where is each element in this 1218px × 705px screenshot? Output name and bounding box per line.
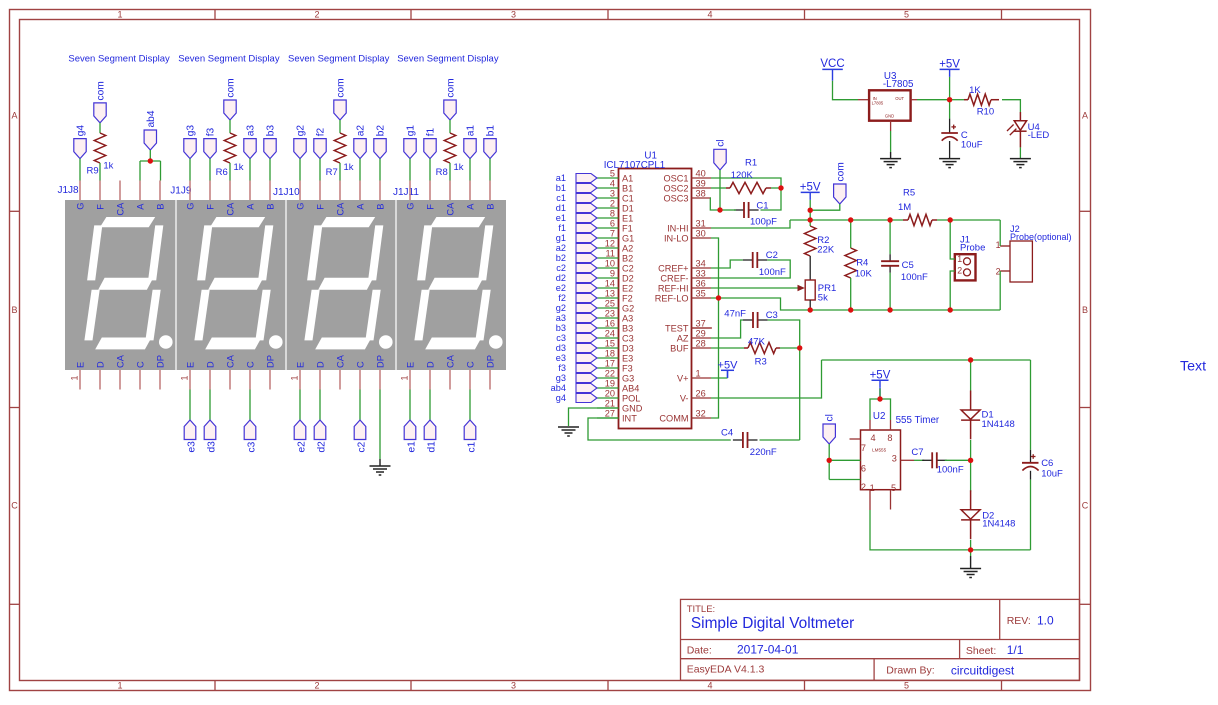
svg-text:Seven Segment Display: Seven Segment Display — [397, 54, 499, 65]
svg-text:E3: E3 — [622, 353, 633, 363]
power +5V (regulator) — [939, 59, 960, 77]
svg-text:c2: c2 — [357, 441, 368, 452]
svg-text:TITLE:: TITLE: — [687, 604, 716, 615]
svg-text:1k: 1k — [103, 161, 113, 172]
svg-text:R6: R6 — [216, 167, 228, 178]
capacitor C5 100nF — [881, 220, 928, 310]
svg-text:C: C — [11, 501, 18, 511]
svg-text:f1: f1 — [558, 223, 566, 233]
svg-text:VCC: VCC — [820, 58, 844, 70]
svg-text:d2: d2 — [556, 273, 566, 283]
net flag a2 — [354, 125, 367, 159]
U1 pin 28 BUF — [670, 338, 711, 353]
wire U1 GND to ground — [569, 408, 619, 426]
net flag f3 — [204, 127, 217, 158]
svg-text:F: F — [95, 204, 105, 210]
net flag c2 — [354, 420, 367, 453]
svg-text:100nF: 100nF — [937, 465, 964, 476]
wire +5V stem to rail — [809, 200, 811, 220]
svg-text:G1: G1 — [622, 233, 634, 243]
svg-text:CA: CA — [115, 202, 125, 216]
net flag a2 (U1 A2) — [556, 243, 597, 253]
svg-text:REF-LO: REF-LO — [655, 293, 689, 303]
wire com to R7 — [339, 120, 341, 133]
net flag c1 — [464, 420, 477, 453]
U1 pin 16 B3 — [597, 318, 633, 333]
wire right branch down to C6 — [1030, 360, 1032, 450]
svg-text:6: 6 — [861, 463, 866, 473]
svg-text:com: com — [226, 78, 237, 97]
net flag d2 (U1 D2) — [556, 273, 597, 283]
U1 pin 17 F3 — [597, 358, 633, 373]
net flag c3 — [244, 420, 257, 453]
wire b2 to pin B — [379, 159, 381, 181]
svg-text:1N4148: 1N4148 — [982, 519, 1015, 530]
svg-text:cl: cl — [716, 139, 727, 146]
wire LED to ground — [1019, 147, 1021, 158]
svg-text:INT: INT — [622, 413, 637, 423]
svg-text:R9: R9 — [87, 166, 99, 177]
svg-text:18: 18 — [605, 348, 615, 358]
svg-text:23: 23 — [605, 308, 615, 318]
wire R1 to OSC1 loop — [771, 187, 781, 189]
display module 2 top pins — [185, 181, 275, 216]
svg-text:4: 4 — [707, 10, 712, 20]
svg-text:a1: a1 — [466, 125, 477, 137]
svg-text:e3: e3 — [556, 353, 566, 363]
svg-text:a2: a2 — [556, 243, 566, 253]
connector J2 Probe(optional) — [996, 224, 1072, 282]
svg-text:1k: 1k — [454, 162, 464, 173]
svg-text:1: 1 — [70, 375, 80, 380]
svg-text:IN-HI: IN-HI — [667, 223, 688, 233]
svg-text:36: 36 — [696, 278, 706, 288]
ground (U3) — [880, 152, 901, 168]
U3 OUT pin — [911, 99, 917, 101]
svg-text:OSC3: OSC3 — [663, 193, 688, 203]
U1 pin 20 POL — [597, 388, 640, 403]
svg-text:a1: a1 — [556, 173, 566, 183]
wire pin to net flag d1 — [429, 390, 431, 421]
svg-text:BUF: BUF — [670, 343, 689, 353]
svg-text:d1: d1 — [427, 441, 438, 453]
capacitor C3 47nF — [724, 308, 778, 328]
svg-text:LM555: LM555 — [872, 447, 886, 452]
U1 pin 5 A1 — [597, 168, 633, 183]
svg-text:Drawn By:: Drawn By: — [886, 665, 934, 677]
svg-text:GND: GND — [622, 403, 643, 413]
svg-text:D3: D3 — [622, 343, 634, 353]
display module 1 bottom pins — [70, 354, 166, 389]
U1 pin 26 V- — [680, 388, 711, 403]
svg-text:32: 32 — [696, 408, 706, 418]
net flag a3 (U1 A3) — [556, 313, 597, 323]
power VCC — [820, 58, 844, 81]
svg-text:1: 1 — [696, 368, 701, 378]
wire V- to 555 rail — [711, 360, 822, 398]
svg-text:AB4: AB4 — [622, 383, 639, 393]
wire R2 to PR1 — [809, 256, 811, 280]
U1 pin 37 TEST stub — [692, 327, 713, 329]
net flag ab4 (U1 AB4) — [551, 383, 597, 393]
capacitor C4 220nF — [721, 428, 777, 458]
svg-text:Simple Digital Voltmeter: Simple Digital Voltmeter — [691, 615, 854, 632]
svg-text:e1: e1 — [407, 441, 418, 453]
diode D1 1N4148 — [961, 391, 1015, 440]
svg-text:OSC2: OSC2 — [663, 183, 688, 193]
resistor R3 47K — [744, 336, 780, 367]
net flag b3 — [264, 125, 277, 159]
svg-text:3: 3 — [892, 453, 897, 463]
svg-text:g4: g4 — [76, 125, 87, 137]
svg-text:c2: c2 — [556, 263, 566, 273]
svg-text:7: 7 — [610, 228, 615, 238]
svg-text:-L7805: -L7805 — [883, 79, 914, 90]
svg-text:d1: d1 — [556, 203, 566, 213]
svg-text:e2: e2 — [297, 441, 308, 453]
U1 pin 2 D1 — [597, 198, 634, 213]
svg-text:28: 28 — [696, 338, 706, 348]
svg-text:37: 37 — [696, 318, 706, 328]
wire R10 to LED — [1002, 100, 1020, 112]
svg-text:C5: C5 — [902, 260, 914, 271]
wire node down to C — [949, 100, 951, 119]
wire AZ to C3 — [711, 320, 743, 338]
net flag b2 — [374, 125, 387, 159]
wire IN-HI to +5V rail — [711, 220, 790, 228]
svg-text:a3: a3 — [246, 125, 257, 137]
display module 3 bottom pins — [290, 354, 386, 389]
svg-text:B: B — [265, 204, 275, 210]
wire f3 to pin F — [209, 159, 211, 181]
net flag a1 (U1 A1) — [556, 173, 597, 183]
svg-text:A3: A3 — [622, 313, 633, 323]
svg-text:R10: R10 — [977, 107, 994, 118]
svg-text:3: 3 — [610, 188, 615, 198]
svg-text:1N4148: 1N4148 — [982, 419, 1015, 430]
resistor R5 1M — [898, 187, 937, 225]
wire pin to net flag c3 — [249, 390, 251, 421]
U1 pin 25 G2 — [597, 298, 634, 313]
seven segment digit 1 — [84, 217, 172, 349]
U1 pin 19 AB4 — [597, 378, 639, 393]
wire 555 bottom rail — [870, 510, 1031, 550]
wire node to R10 — [950, 99, 964, 101]
svg-text:D: D — [95, 361, 105, 368]
ground (555) — [960, 550, 981, 578]
net flag com (module 4) — [444, 78, 457, 120]
net flag e3 (U1 E3) — [556, 353, 597, 363]
net flag f3 (U1 F3) — [558, 363, 597, 373]
svg-text:F: F — [425, 204, 435, 210]
wire V+ to +5V — [711, 377, 728, 379]
wire pin 3 to C7 — [914, 459, 924, 461]
wire BUF to R3 — [711, 347, 744, 349]
wire C3 right down to R3 node — [768, 320, 800, 440]
wire REF-HI to PR1 wiper — [711, 287, 798, 289]
op-amp/IC U1 ICL7107CPL1 — [604, 151, 692, 429]
svg-text:2: 2 — [957, 265, 962, 275]
U1 pin 38 OSC3 — [663, 188, 711, 203]
U1 pin 1 V+ — [677, 368, 711, 383]
net flag d1 — [424, 420, 437, 453]
wire R6 to pin CA — [229, 163, 231, 181]
svg-text:3: 3 — [511, 681, 516, 691]
U1 pin 29 AZ — [677, 328, 711, 343]
svg-text:4: 4 — [610, 178, 615, 188]
svg-text:AZ: AZ — [677, 333, 689, 343]
wire C7 to D1/D2 node — [945, 459, 971, 461]
title block — [681, 599, 1080, 680]
ground (U1 GND) — [558, 427, 579, 436]
wire C1 left — [720, 209, 736, 211]
svg-text:ab4: ab4 — [146, 110, 157, 127]
svg-text:35: 35 — [696, 288, 706, 298]
net flag e1 (U1 E1) — [556, 213, 597, 223]
svg-text:CA: CA — [115, 354, 125, 368]
wire +5V to pins 4,8 — [879, 388, 881, 399]
wire cl to OSC3/C1 node — [719, 170, 721, 210]
svg-text:5: 5 — [904, 10, 909, 20]
capacitor C6 10uF — [1022, 450, 1063, 550]
svg-text:47K: 47K — [748, 336, 766, 347]
capacitor C1 100pF — [734, 201, 777, 228]
svg-text:F1: F1 — [622, 223, 633, 233]
svg-text:c1: c1 — [556, 193, 566, 203]
net flag com (module 1) — [94, 81, 107, 123]
svg-text:L7805: L7805 — [872, 101, 884, 106]
wire b1 to pin B — [489, 159, 491, 181]
svg-text:d3: d3 — [207, 441, 218, 453]
U1 pin 22 G3 — [597, 368, 634, 383]
svg-text:com: com — [336, 78, 347, 97]
U1 pin 34 CREF+ — [658, 258, 711, 273]
svg-text:cl: cl — [825, 414, 836, 421]
svg-text:E: E — [185, 362, 195, 368]
net flag com (module 2) — [224, 78, 237, 120]
net flag d3 — [204, 420, 217, 453]
svg-text:220nF: 220nF — [750, 447, 777, 458]
wire R8 to pin CA — [449, 163, 451, 181]
net flag g1 (U1 G1) — [556, 233, 597, 243]
wire rail to D1 — [970, 360, 972, 391]
net flag g3 (U1 G3) — [556, 373, 597, 383]
wire pin to net flag c1 — [469, 390, 471, 421]
svg-text:REF-HI: REF-HI — [658, 283, 689, 293]
svg-text:E: E — [295, 362, 305, 368]
ground (display DP) — [370, 459, 391, 475]
svg-text:F2: F2 — [622, 293, 633, 303]
svg-text:V+: V+ — [677, 373, 689, 383]
power +5V (V+) — [718, 360, 739, 378]
svg-text:B1: B1 — [622, 183, 633, 193]
svg-text:5: 5 — [610, 168, 615, 178]
svg-text:1M: 1M — [898, 202, 911, 213]
seven segment digit 4 — [414, 217, 502, 349]
timer U2 555 — [861, 411, 940, 493]
U1 pin 9 D2 — [597, 268, 634, 283]
wire pin to net flag c2 — [359, 390, 361, 421]
wire VCC to U3 IN — [833, 81, 859, 100]
svg-text:CA: CA — [225, 354, 235, 368]
svg-text:Seven Segment Display: Seven Segment Display — [178, 54, 280, 65]
net flag e3 — [184, 420, 197, 453]
net flag g1 — [404, 125, 417, 159]
diode D2 1N4148 — [961, 490, 1015, 539]
wire +5V top rail — [790, 219, 903, 221]
svg-text:1: 1 — [957, 254, 962, 264]
svg-text:G: G — [405, 203, 415, 210]
wire bottom rail to J1 pin 2 — [950, 271, 955, 310]
svg-text:a3: a3 — [556, 313, 566, 323]
U1 pin 33 CREF- — [660, 268, 711, 283]
display module 4 top pins — [405, 181, 495, 216]
svg-text:d2: d2 — [317, 441, 328, 453]
net flag d2 — [314, 420, 327, 453]
svg-text:39: 39 — [696, 178, 706, 188]
resistor R1 120K — [726, 158, 771, 194]
net flag e2 (U1 E2) — [556, 283, 597, 293]
net flag f1 — [424, 127, 437, 158]
net flag d3 (U1 D3) — [556, 343, 597, 353]
svg-text:U2: U2 — [873, 411, 886, 422]
svg-text:D: D — [425, 361, 435, 368]
svg-text:CREF-: CREF- — [660, 273, 688, 283]
svg-text:120K: 120K — [731, 170, 754, 181]
U1 pin 36 REF-HI — [658, 278, 711, 293]
svg-text:G: G — [75, 203, 85, 210]
svg-text:20: 20 — [605, 388, 615, 398]
svg-text:A1: A1 — [622, 173, 633, 183]
wire pin to net flag e1 — [409, 390, 411, 421]
svg-text:C: C — [355, 361, 365, 368]
svg-text:2: 2 — [610, 198, 615, 208]
U1 pin 37 TEST — [665, 318, 711, 333]
svg-text:CA: CA — [225, 202, 235, 216]
svg-text:com: com — [835, 162, 846, 181]
U1 pin 13 F2 — [597, 288, 633, 303]
resistor R10 1K — [964, 85, 999, 118]
svg-text:g4: g4 — [556, 393, 566, 403]
net flag f1 (U1 F1) — [558, 223, 597, 233]
svg-text:6: 6 — [610, 218, 615, 228]
wire rail to J1 pin 1 — [950, 220, 955, 259]
svg-text:13: 13 — [605, 288, 615, 298]
svg-text:9: 9 — [610, 268, 615, 278]
wire g4 to pin G — [79, 159, 81, 181]
net flag b2 (U1 B2) — [556, 253, 597, 263]
svg-text:47nF: 47nF — [724, 308, 746, 319]
svg-text:R4: R4 — [856, 258, 868, 269]
U1 pin 7 G1 — [597, 228, 634, 243]
svg-text:R7: R7 — [326, 167, 338, 178]
svg-text:POL: POL — [622, 393, 640, 403]
svg-text:1: 1 — [180, 375, 190, 380]
wire pin to net flag d3 — [209, 390, 211, 421]
svg-text:f2: f2 — [316, 127, 327, 136]
net flag com (module 3) — [334, 78, 347, 120]
svg-text:g2: g2 — [296, 125, 307, 137]
svg-text:12: 12 — [605, 238, 615, 248]
wire pin to net flag e2 — [299, 390, 301, 421]
svg-text:D: D — [315, 361, 325, 368]
svg-text:b3: b3 — [266, 125, 277, 137]
wire R3 to node — [780, 347, 800, 349]
svg-text:e3: e3 — [187, 441, 198, 453]
net flag g4 (U1 POL) — [556, 393, 597, 403]
svg-text:31: 31 — [696, 218, 706, 228]
svg-text:REV:: REV: — [1007, 615, 1031, 627]
capacitor C2 100nF — [743, 250, 786, 278]
svg-text:1.0: 1.0 — [1037, 613, 1054, 627]
U1 pin 18 E3 — [597, 348, 633, 363]
svg-text:A: A — [11, 111, 17, 121]
net flag a3 — [244, 125, 257, 159]
svg-text:10K: 10K — [855, 269, 873, 280]
wire ab4 to pins A,B — [149, 150, 151, 161]
U1 pin 23 A3 — [597, 308, 633, 323]
wire OUT to +5V node — [917, 99, 950, 101]
U2 pin stubs — [869, 420, 871, 430]
svg-text:10uF: 10uF — [1041, 468, 1063, 479]
svg-text:14: 14 — [605, 278, 615, 288]
svg-text:24: 24 — [605, 328, 615, 338]
svg-text:2: 2 — [861, 482, 866, 492]
svg-text:A: A — [1082, 111, 1088, 121]
wire com to +5V stem — [810, 204, 840, 210]
LED U4 — [1007, 112, 1049, 147]
svg-text:E: E — [75, 362, 85, 368]
svg-text:D1: D1 — [622, 203, 634, 213]
wire cl to pins 6,2 — [828, 444, 830, 480]
svg-text:F3: F3 — [622, 363, 633, 373]
svg-text:27: 27 — [605, 408, 615, 418]
svg-text:G3: G3 — [622, 373, 634, 383]
net flag c1 (U1 C1) — [556, 193, 597, 203]
svg-text:f3: f3 — [558, 363, 566, 373]
seven segment digit 2 — [194, 217, 282, 349]
U1 pin 31 IN-HI — [667, 218, 711, 233]
svg-text:b3: b3 — [556, 323, 566, 333]
U1 pin 30 IN-LO — [664, 228, 711, 243]
wire g3 to pin G — [189, 159, 191, 181]
svg-text:10uF: 10uF — [961, 139, 983, 150]
wire IN-LO / COMM vertical — [711, 238, 719, 418]
svg-text:Probe: Probe — [960, 243, 985, 254]
svg-text:TEST: TEST — [665, 323, 689, 333]
wire OSC1 loop — [711, 178, 781, 210]
svg-text:Date:: Date: — [687, 644, 712, 656]
svg-text:B: B — [375, 204, 385, 210]
svg-text:E: E — [405, 362, 415, 368]
svg-text:DP: DP — [375, 355, 385, 368]
resistor R2 22K — [805, 220, 835, 256]
seven segment digit 3 — [304, 217, 392, 349]
capacitor C7 100nF — [911, 447, 963, 476]
wire module3 DP to ground — [379, 390, 381, 460]
wire pin to net flag d2 — [319, 390, 321, 421]
display module 2 bottom pins — [180, 354, 276, 389]
svg-text:GND: GND — [885, 113, 894, 118]
display module 4 bottom pins — [400, 354, 496, 389]
svg-text:e2: e2 — [556, 283, 566, 293]
svg-text:1k: 1k — [344, 162, 354, 173]
svg-text:F: F — [315, 204, 325, 210]
wire com to R9 — [99, 123, 101, 133]
connector J1 Probe — [955, 235, 986, 281]
svg-text:g3: g3 — [556, 373, 566, 383]
svg-text:5: 5 — [904, 681, 909, 691]
